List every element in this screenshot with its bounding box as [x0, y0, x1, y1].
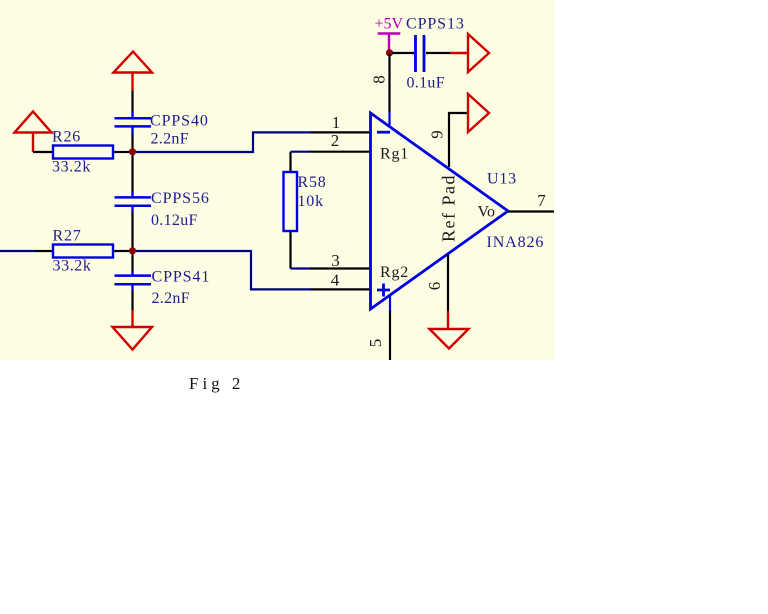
- pin 5 wire: [389, 311, 391, 360]
- pin 8 wire: [388, 54, 390, 112]
- svg-text:33.2k: 33.2k: [52, 159, 91, 176]
- pin 9 wire: [449, 113, 468, 167]
- svg-text:4: 4: [331, 271, 340, 290]
- schematic sheet background: [0, 0, 555, 360]
- pin 6 wire: [447, 255, 449, 312]
- svg-text:INA826: INA826: [487, 234, 545, 251]
- svg-text:2: 2: [331, 131, 340, 150]
- svg-text:U13: U13: [487, 171, 517, 188]
- pin 3 stub: [310, 267, 370, 269]
- svg-text:CPPS56: CPPS56: [151, 190, 210, 207]
- capacitor CPPS40: [115, 118, 152, 126]
- pin 4 stub: [311, 288, 370, 290]
- svg-text:CPPS13: CPPS13: [406, 16, 465, 33]
- resistor R58: [284, 152, 298, 269]
- svg-text:8: 8: [370, 75, 389, 84]
- svg-text:33.2k: 33.2k: [53, 258, 92, 275]
- svg-text:9: 9: [428, 130, 447, 139]
- svg-text:1: 1: [332, 113, 341, 132]
- svg-text:6: 6: [425, 282, 444, 291]
- svg-text:2.2nF: 2.2nF: [152, 290, 190, 307]
- wire: R58 to pin 3: [291, 267, 311, 269]
- svg-text:Ref Pad: Ref Pad: [439, 174, 459, 242]
- capacitor CPPS13: [416, 35, 425, 72]
- pin 5 stub (blue): [389, 296, 391, 312]
- ground port (below CPPS41): [113, 310, 153, 350]
- svg-text:0.12uF: 0.12uF: [151, 212, 198, 229]
- svg-text:2.2nF: 2.2nF: [151, 131, 189, 148]
- wire: node to CPPS13: [392, 52, 414, 54]
- wire: left input to R27: [0, 250, 53, 252]
- svg-text:R26: R26: [52, 129, 81, 146]
- pin 2 stub: [310, 151, 370, 153]
- svg-text:7: 7: [537, 191, 546, 210]
- wire: node to op-amp pin 4: [136, 251, 311, 289]
- pin 7 wire (Vo output): [508, 210, 554, 212]
- minus symbol: [377, 131, 390, 134]
- svg-text:0.1uF: 0.1uF: [407, 75, 445, 92]
- ground port (pin 6): [430, 311, 469, 349]
- resistor R27: [53, 245, 129, 258]
- capacitor CPPS41: [115, 276, 152, 285]
- op-amp U13 triangle: [371, 113, 509, 309]
- svg-text:5: 5: [366, 339, 385, 348]
- node junction (+5V / pin 8 / CPPS13): [386, 49, 393, 56]
- power port arrow (pin 9): [468, 94, 489, 132]
- pin 1 stub: [311, 131, 370, 133]
- svg-text:CPPS40: CPPS40: [150, 113, 209, 130]
- svg-text:10k: 10k: [298, 193, 324, 210]
- node junction (R27/CPPS56/CPPS41): [129, 247, 136, 254]
- plus symbol: [377, 284, 390, 297]
- pin 8 stub (blue): [388, 112, 390, 127]
- svg-text:CPPS41: CPPS41: [152, 269, 211, 286]
- capacitor CPPS56: [115, 197, 152, 205]
- svg-text:R27: R27: [53, 228, 82, 245]
- power port arrow (right of CPPS13): [468, 34, 489, 72]
- svg-text:Rg1: Rg1: [380, 146, 409, 163]
- svg-text:3: 3: [331, 251, 340, 270]
- +5V power symbol: [378, 34, 401, 51]
- svg-text:+5V: +5V: [375, 16, 404, 33]
- svg-text:Vo: Vo: [478, 204, 496, 221]
- svg-text:Rg2: Rg2: [380, 264, 409, 281]
- wire: port to R26: [33, 151, 53, 153]
- power port arrow (left, above R26): [15, 112, 52, 153]
- svg-text:R58: R58: [298, 174, 327, 191]
- wire: CPPS13 to port: [426, 52, 468, 54]
- wire: node to op-amp pin 1: [136, 132, 311, 152]
- power port arrow (top, above CPPS40): [114, 52, 153, 92]
- node junction (R26/CPPS40/CPPS56): [129, 148, 136, 155]
- wire: vertical trunk x=132.5: [131, 91, 133, 117]
- svg-text:Fig 2: Fig 2: [189, 374, 244, 393]
- wire: R58 to pin 2: [291, 151, 311, 153]
- resistor R26: [53, 146, 129, 159]
- capacitor pin stubs (blue): [131, 112, 133, 291]
